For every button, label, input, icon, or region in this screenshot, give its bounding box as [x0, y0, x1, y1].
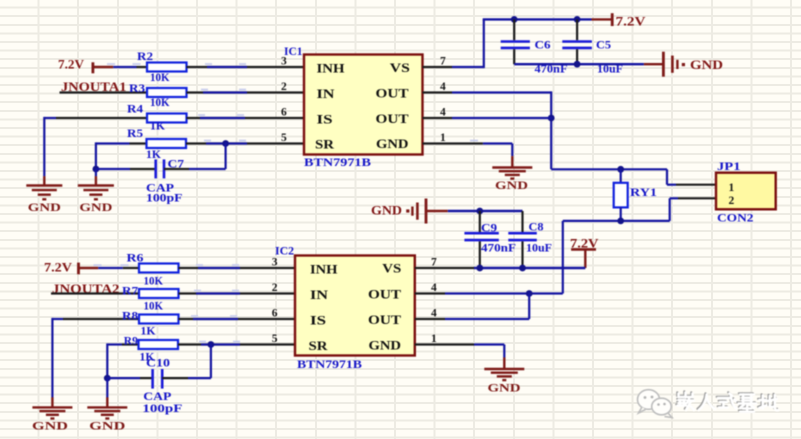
resistor R4: [147, 114, 187, 123]
junction node at C7 left: [93, 166, 100, 173]
wire R7 to IC2 pin 2: [179, 290, 296, 294]
wire R2 to IC1 pin 3: [187, 63, 305, 67]
wire riser to GND1b: [51, 318, 53, 398]
svg-text:1K: 1K: [146, 149, 161, 161]
svg-text:R7: R7: [122, 286, 138, 298]
watermark text (CJK brand): [676, 391, 778, 411]
junction node C9 top: [476, 208, 483, 215]
wire GND rail above C9 C8: [448, 210, 523, 212]
svg-text:R5: R5: [127, 128, 143, 140]
wire OUT pin4a to riser: [423, 91, 552, 93]
wire R5 left: [96, 142, 147, 144]
power port 7.2V (top-right): [592, 13, 646, 28]
svg-text:IC2: IC2: [275, 246, 294, 258]
svg-text:SR: SR: [315, 137, 335, 152]
ground GND (IC1 pin1): [492, 156, 532, 192]
wire R8 left to GND riser: [52, 318, 139, 320]
svg-text:2: 2: [729, 195, 735, 207]
wire R3 to IC1 pin 2: [187, 89, 305, 93]
ground GND2: [78, 176, 114, 214]
svg-text:5: 5: [281, 132, 287, 144]
power port 7.2V (top-left): [58, 58, 113, 74]
svg-text:100pF: 100pF: [142, 403, 182, 415]
svg-text:1: 1: [729, 182, 735, 194]
junction node OUT pins join (IC2): [526, 290, 533, 297]
svg-text:6: 6: [281, 107, 287, 119]
svg-text:10K: 10K: [150, 72, 170, 84]
wire R5 to IC1 pin 5: [186, 140, 304, 144]
wire VS pin7 rail (IC2): [415, 267, 586, 269]
svg-text:10uF: 10uF: [526, 243, 552, 255]
svg-text:OUT: OUT: [376, 111, 409, 126]
junction node C9 bottom: [476, 265, 483, 272]
op-amp U IC1 body (BTN7971B): [304, 55, 423, 155]
svg-text:6: 6: [272, 308, 278, 320]
resistor R6: [139, 264, 179, 273]
svg-text:C10: C10: [146, 358, 170, 370]
svg-text:GND: GND: [376, 136, 409, 151]
svg-text:100pF: 100pF: [146, 193, 183, 205]
svg-text:4: 4: [431, 308, 437, 320]
svg-text:10K: 10K: [144, 276, 164, 288]
wire to JP1 pin2: [670, 198, 716, 221]
svg-text:GND: GND: [371, 204, 402, 218]
wire OUT pin4a (IC2): [415, 292, 563, 294]
wire stub to GND2: [95, 169, 97, 176]
wire riser R9 to C10 row: [106, 343, 108, 378]
svg-text:GND: GND: [89, 419, 125, 433]
wire R4 left to GND riser: [44, 117, 147, 119]
svg-text:IS: IS: [310, 313, 326, 328]
svg-text:R9: R9: [124, 336, 138, 348]
wire R6 to IC2 pin 3: [179, 264, 296, 268]
resistor R9: [139, 340, 179, 349]
wire GND pin1 of IC2: [415, 345, 505, 358]
wire 7.2V top rail: [483, 18, 592, 20]
svg-text:2: 2: [281, 81, 287, 93]
op-amp U IC2 body (BTN7971B): [295, 256, 415, 356]
resistor R2: [147, 63, 187, 72]
wire RY1 top rail: [551, 168, 667, 170]
capacitor C5: [562, 19, 592, 64]
wire riser R5 to C7 row: [95, 142, 97, 169]
wire OUT pin4b (IC2): [415, 292, 529, 319]
wire VS pin7 to riser: [423, 66, 484, 68]
ground GND (sideways left, mid): [371, 199, 448, 224]
svg-text:GND: GND: [28, 200, 61, 214]
svg-text:C6: C6: [535, 40, 551, 52]
svg-text:IS: IS: [317, 111, 333, 126]
svg-text:2: 2: [272, 282, 278, 294]
svg-text:7.2V: 7.2V: [44, 261, 72, 275]
junction node RY1 bottom: [617, 218, 624, 225]
wire riser to GND1: [43, 117, 45, 176]
wire R9 left: [107, 343, 138, 345]
power port 7.2V (mid): [570, 237, 599, 269]
svg-text:4: 4: [431, 282, 437, 294]
svg-text:R6: R6: [127, 253, 144, 265]
wire C7 right to pin5 junction: [164, 142, 226, 169]
capacitor C9: [464, 211, 498, 268]
svg-text:1: 1: [440, 132, 446, 144]
junction node RY1 top: [617, 166, 624, 173]
wire R9 to IC2 pin 5: [178, 341, 295, 345]
svg-text:GND: GND: [690, 58, 723, 72]
wire JNOUTA1 to R3: [60, 91, 148, 93]
svg-text:1K: 1K: [150, 121, 165, 133]
svg-text:GND: GND: [488, 381, 521, 395]
ground GND1: [26, 176, 62, 214]
svg-text:470nF: 470nF: [481, 243, 516, 255]
svg-text:OUT: OUT: [368, 312, 401, 327]
svg-text:GND: GND: [495, 178, 528, 192]
wire R4 to IC1 pin 6: [187, 114, 305, 118]
wire C10 right to pin5 junction: [162, 343, 211, 378]
resistor R8: [139, 315, 179, 324]
wire JNOUTA2 to R7: [51, 292, 140, 294]
svg-text:IN: IN: [310, 287, 329, 302]
wire RY1 bottom rail: [563, 220, 670, 222]
junction node C5 bottom: [574, 61, 581, 68]
junction node C6 top: [511, 16, 518, 23]
svg-text:JP1: JP1: [717, 161, 741, 173]
resistor R3: [147, 88, 187, 97]
wire C7 left: [96, 168, 156, 170]
power port 7.2V (bottom-left): [44, 261, 98, 275]
wire R8 to IC2 pin 6: [179, 315, 296, 319]
svg-text:GND: GND: [79, 200, 112, 214]
svg-text:1K: 1K: [141, 326, 156, 338]
wire OUT pin4b: [423, 117, 553, 119]
connector JP1 body (CON2): [716, 173, 776, 210]
resistor R5: [147, 139, 187, 148]
junction node at C10 left: [104, 375, 111, 382]
svg-text:3: 3: [281, 56, 287, 68]
svg-text:7.2V: 7.2V: [616, 15, 646, 29]
svg-text:GND: GND: [32, 419, 68, 433]
svg-text:BTN7971B: BTN7971B: [304, 157, 371, 169]
svg-text:10K: 10K: [144, 301, 164, 313]
svg-text:7: 7: [440, 56, 446, 68]
svg-text:4: 4: [440, 107, 446, 119]
svg-text:3: 3: [272, 257, 278, 269]
wire riser rail to IC2 OUT: [562, 221, 564, 294]
capacitor C6: [501, 19, 530, 64]
svg-text:C5: C5: [596, 40, 611, 52]
capacitor C7: [156, 159, 164, 178]
svg-text:VS: VS: [390, 60, 410, 75]
junction node on pin 5 wire (IC2): [208, 341, 215, 348]
svg-text:OUT: OUT: [376, 86, 409, 101]
svg-text:CAP: CAP: [143, 391, 171, 403]
svg-text:7.2V: 7.2V: [58, 58, 84, 72]
wire C10 left: [107, 377, 152, 379]
capacitor C10: [153, 369, 163, 389]
wire riser OUT to RY1 top rail: [550, 91, 552, 169]
svg-text:C8: C8: [529, 222, 544, 234]
svg-text:INH: INH: [310, 262, 338, 277]
ground GND (sideways right): [663, 52, 723, 77]
svg-text:IN: IN: [317, 86, 336, 101]
junction node on pin 5 wire: [222, 140, 229, 147]
svg-text:GND: GND: [369, 338, 402, 353]
svg-text:R8: R8: [122, 311, 138, 323]
svg-text:OUT: OUT: [368, 287, 401, 302]
capacitor C8: [508, 211, 537, 268]
svg-text:5: 5: [272, 333, 278, 345]
junction node OUT pins join: [548, 115, 555, 122]
svg-text:SR: SR: [309, 338, 329, 353]
wire stub to GND2 bottom: [106, 378, 108, 398]
ground GND1 (bottom): [32, 397, 72, 432]
svg-text:VS: VS: [382, 261, 401, 276]
svg-text:10K: 10K: [150, 97, 170, 109]
svg-text:R2: R2: [137, 51, 153, 63]
svg-text:BTN7971B: BTN7971B: [297, 359, 362, 371]
watermark logo (chat bubbles): [638, 390, 673, 418]
svg-text:7: 7: [431, 257, 437, 269]
wire to JP1 pin1: [667, 169, 716, 184]
wire GND pin1 of IC1: [423, 140, 513, 156]
ground GND2 (bottom): [87, 397, 127, 432]
junction node C5 top: [574, 16, 581, 23]
wire riser VS to 7.2V rail: [483, 19, 485, 68]
svg-text:INH: INH: [317, 60, 345, 75]
wire 7.2V to R2: [107, 63, 148, 67]
svg-text:1: 1: [431, 333, 437, 345]
resistor RY1: [614, 169, 628, 221]
svg-text:CON2: CON2: [717, 212, 754, 224]
wire GND rail under C6 C5: [514, 63, 663, 65]
resistor R7: [139, 289, 179, 298]
svg-text:4: 4: [440, 81, 446, 93]
svg-text:RY1: RY1: [630, 187, 657, 199]
wire 7.2V to R6: [94, 264, 140, 268]
svg-text:C9: C9: [481, 223, 497, 235]
svg-text:R3: R3: [129, 83, 145, 95]
ground GND (IC2 pin1): [484, 357, 524, 394]
svg-text:R4: R4: [127, 103, 143, 115]
junction node C8 bottom: [519, 265, 526, 272]
